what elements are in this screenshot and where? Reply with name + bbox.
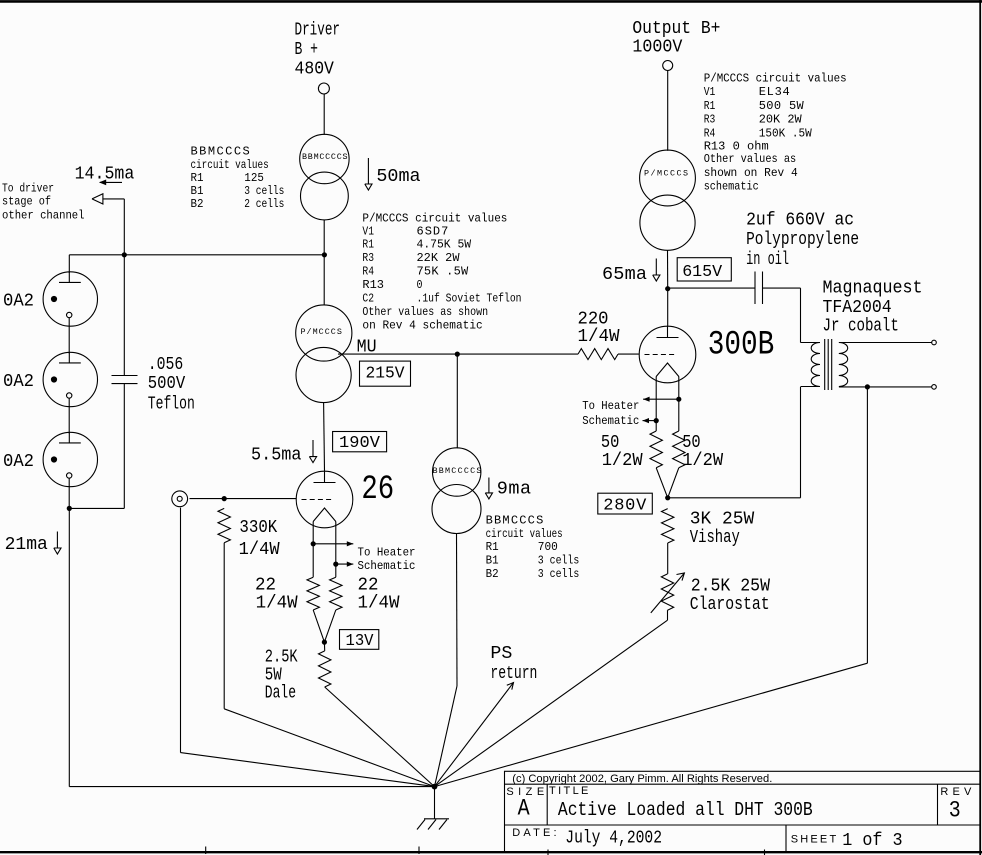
terminal Output B+ (663, 61, 673, 71)
svg-text:R1: R1 (704, 99, 716, 113)
terminal output top (932, 340, 937, 345)
svg-text:Dale: Dale (265, 683, 296, 704)
svg-text:A: A (518, 795, 530, 821)
wire (667, 543, 669, 574)
svg-text:215V: 215V (366, 365, 406, 384)
svg-text:B2: B2 (191, 197, 204, 211)
wire vee join 300B (656, 468, 679, 498)
label To Heater Schematic (300B) (582, 399, 639, 428)
svg-text:1 of 3: 1 of 3 (842, 830, 902, 851)
svg-text:700: 700 (538, 540, 558, 554)
wire filament right 26 (335, 522, 337, 578)
label 0A2 (middle) (3, 371, 34, 392)
wire bus (69, 254, 324, 256)
svg-text:190V: 190V (339, 434, 381, 453)
label SHEET (791, 834, 837, 846)
label 3K 25W Vishay (690, 509, 755, 548)
svg-text:B +: B + (295, 39, 319, 60)
wire (618, 353, 639, 355)
node junction cathode vee (322, 640, 327, 645)
terminal input jack (172, 491, 188, 507)
wire (323, 642, 325, 651)
capacitor 2uf 660V (755, 272, 763, 305)
wire primary bottom (668, 387, 820, 498)
label SIZE (506, 786, 544, 798)
label 2uf 660V ac Polypropylene in oil (746, 210, 859, 270)
svg-text:R13: R13 (362, 278, 384, 292)
label To Heater Schematic (26) (358, 546, 416, 573)
resistor 220 1/4W (578, 349, 618, 360)
wire (667, 289, 669, 327)
arrow open to other channel (92, 194, 124, 204)
label 0A2 (bottom) (3, 451, 34, 472)
terminal Driver B+ (318, 83, 329, 94)
node junction MU (455, 352, 460, 357)
node Output B+ label (632, 18, 720, 58)
svg-text:C2: C2 (362, 292, 374, 306)
label 2.5K 25W Clarostat (690, 575, 771, 615)
label 21ma arrow (5, 532, 61, 556)
wire secondary top (839, 342, 932, 344)
svg-text:To Heater: To Heater (358, 546, 416, 560)
svg-text:75K .5W: 75K .5W (417, 265, 469, 279)
svg-text:65ma: 65ma (602, 264, 647, 285)
wire (323, 403, 326, 472)
svg-text:R1: R1 (486, 540, 499, 554)
svg-text:B1: B1 (486, 554, 499, 568)
current source CCS3 BBMCCCCS (432, 448, 481, 534)
svg-text:125: 125 (244, 171, 264, 185)
svg-text:26: 26 (361, 471, 394, 509)
node junction 280V (665, 495, 670, 500)
svg-text:R1: R1 (362, 237, 374, 251)
wire (435, 387, 868, 787)
wire (323, 94, 325, 135)
label P/MCCCS circuit values (output) (704, 72, 847, 194)
current source CCS4 P/MCCCS output (640, 150, 696, 250)
label 330K 1/4W (239, 517, 281, 560)
wire jack down (181, 508, 435, 787)
svg-text:schematic: schematic (704, 180, 759, 194)
svg-text:2 cells: 2 cells (244, 197, 284, 211)
label TITLE (549, 785, 588, 797)
svg-text:0A2: 0A2 (3, 371, 34, 392)
label 50ma arrow (365, 158, 421, 190)
svg-text:P/MCCCS circuit values: P/MCCCS circuit values (704, 72, 847, 86)
svg-text:in oil: in oil (746, 249, 789, 270)
label 300B (708, 326, 775, 364)
svg-text:circuit values: circuit values (486, 527, 563, 541)
svg-text:SHEET: SHEET (791, 834, 837, 846)
svg-text:Polypropylene: Polypropylene (746, 229, 859, 250)
ground chassis symbol (417, 819, 449, 830)
svg-text:Active Loaded all DHT 300B: Active Loaded all DHT 300B (558, 799, 813, 821)
svg-text:Clarostat: Clarostat (690, 594, 770, 615)
node junction bus (322, 252, 327, 257)
svg-text:EL34: EL34 (759, 85, 790, 99)
border frame bottom (0, 851, 982, 853)
wire (323, 220, 325, 255)
wire filament left 300B (655, 376, 657, 431)
label Magnaquest TFA2004 Jr cobalt (823, 278, 923, 337)
label size A (518, 795, 530, 821)
svg-text:P/MCCCS: P/MCCCS (644, 168, 688, 178)
svg-text:3: 3 (949, 797, 961, 823)
terminal output bottom (932, 385, 937, 390)
tube V3 300B (639, 326, 696, 383)
svg-text:V1: V1 (704, 85, 716, 99)
label 65ma arrow (602, 259, 660, 285)
label 2.5K 5W Dale (265, 647, 298, 704)
arrow to heater (26) (313, 541, 353, 546)
label rev 3 (949, 797, 961, 823)
svg-text:P/MCCCS: P/MCCCS (301, 327, 342, 337)
label 280V boxed (598, 493, 653, 515)
tube V2 26 (296, 471, 353, 528)
svg-text:2uf 660V ac: 2uf 660V ac (746, 210, 854, 231)
svg-text:4.75K 5W: 4.75K 5W (417, 237, 472, 251)
resistor 330K 1/4W (218, 508, 230, 542)
arrow to heater (300B) (643, 397, 679, 402)
svg-text:0A2: 0A2 (3, 451, 34, 472)
svg-text:280V: 280V (603, 497, 647, 516)
node junction filament right 300B (676, 397, 681, 402)
label 215V boxed (360, 361, 411, 386)
resistor 22 1/4W left (307, 577, 319, 610)
svg-text:Magnaquest: Magnaquest (823, 278, 923, 299)
svg-text:Vishay: Vishay (690, 527, 740, 548)
svg-text:5.5ma: 5.5ma (251, 444, 302, 465)
label 5.5ma arrow (251, 440, 317, 465)
node junction filament left 300B (654, 418, 659, 423)
label PS return (490, 643, 537, 684)
tube V6 0A2 bottom (43, 432, 97, 486)
resistor 2.5K 5W Dale (319, 651, 331, 687)
arrow to heater 2 (300B) (643, 418, 657, 423)
svg-text:0: 0 (417, 278, 423, 292)
wire grid 26 (190, 498, 297, 500)
label date text (565, 827, 662, 848)
node junction filament right (333, 562, 338, 567)
svg-text:BBMCCCCS: BBMCCCCS (433, 466, 482, 476)
svg-text:BBMCCCS: BBMCCCS (191, 145, 250, 159)
svg-text:return: return (490, 663, 537, 684)
capacitor .056 500V Teflon (112, 376, 138, 384)
label sheet text (842, 830, 902, 851)
label to driver stage of other channel (2, 182, 85, 223)
label 50 1/2W left (601, 432, 644, 471)
border frame right (979, 0, 981, 855)
svg-text:3 cells: 3 cells (538, 567, 580, 581)
svg-text:other channel: other channel (2, 208, 85, 222)
label title text (558, 799, 813, 821)
label .056 500V Teflon (148, 354, 195, 415)
svg-text:1/2W: 1/2W (602, 450, 644, 471)
svg-text:.056: .056 (148, 354, 184, 375)
svg-text:Other values as: Other values as (704, 152, 797, 166)
wire MU output (338, 353, 578, 355)
svg-text:REV: REV (940, 786, 972, 798)
wire (325, 687, 435, 787)
label MU (357, 336, 377, 357)
label BBMCCCS circuit values (driver) (191, 145, 285, 211)
border tick marks (206, 847, 765, 855)
svg-text:PS: PS (490, 643, 512, 664)
wire (435, 534, 458, 787)
border frame top (0, 0, 982, 3)
svg-text:TITLE: TITLE (549, 785, 588, 797)
node junction 0A2 bottom (67, 506, 72, 511)
svg-text:DATE:: DATE: (512, 827, 556, 839)
svg-text:1/4W: 1/4W (239, 539, 281, 560)
wire vee join (313, 610, 336, 642)
svg-text:.1uf Soviet Teflon: .1uf Soviet Teflon (417, 292, 522, 306)
svg-text:R4: R4 (362, 265, 374, 279)
svg-text:R3: R3 (704, 113, 716, 127)
node junction ground star (432, 784, 438, 790)
svg-text:0A2: 0A2 (3, 290, 34, 311)
tube V5 0A2 middle (43, 352, 97, 406)
label 9ma arrow (485, 478, 531, 500)
svg-text:BBMCCCCS: BBMCCCCS (302, 152, 348, 162)
svg-text:July 4,2002: July 4,2002 (565, 827, 662, 848)
current source CCS1 BBMCCCCS (300, 134, 349, 220)
resistor 22 1/4W right (330, 577, 342, 610)
label 22 1/4W right (358, 574, 401, 613)
wire PS return arrow (435, 683, 514, 787)
wire (68, 255, 70, 273)
wire filament right 300B (678, 376, 680, 431)
resistor 50 1/2W right (673, 431, 685, 468)
label copyright (512, 773, 772, 785)
svg-text:500 5W: 500 5W (759, 99, 805, 113)
svg-text:300B: 300B (708, 326, 775, 364)
svg-text:1000V: 1000V (632, 36, 682, 57)
wire (69, 384, 124, 509)
wire (224, 543, 434, 787)
svg-text:R1: R1 (191, 171, 204, 185)
svg-text:To driver: To driver (2, 182, 54, 196)
label 50 1/2W right (682, 432, 724, 471)
svg-text:22K 2W: 22K 2W (417, 251, 461, 265)
resistor 3K 25W Vishay (662, 509, 674, 543)
wire (456, 354, 458, 448)
wire (68, 318, 70, 354)
label 190V boxed (333, 432, 387, 454)
label 26 (361, 471, 394, 509)
svg-text:Other values as shown: Other values as shown (362, 305, 488, 319)
transformer Magnequest TFA2004 (811, 339, 848, 390)
svg-text:3 cells: 3 cells (538, 554, 580, 568)
resistor 2.5K 25W Clarostat variable (651, 573, 685, 613)
svg-text:13V: 13V (346, 632, 375, 651)
label P/MCCCS circuit values (driver) (362, 212, 521, 333)
svg-text:V1: V1 (362, 224, 374, 238)
wire (667, 250, 669, 288)
svg-text:Driver: Driver (295, 19, 341, 40)
node junction cap tap (122, 252, 127, 257)
wire (668, 287, 755, 289)
wire (123, 199, 125, 255)
svg-text:Jr cobalt: Jr cobalt (823, 315, 899, 336)
svg-text:stage of: stage of (2, 195, 51, 209)
svg-text:330K: 330K (239, 517, 278, 538)
label BBMCCCS circuit values (cathode) (486, 514, 580, 581)
label 0A2 (top) (3, 290, 34, 311)
current source CCS2 P/MCCCS MU (296, 255, 352, 403)
svg-text:1/2W: 1/2W (682, 450, 724, 471)
label 220 1/4W (578, 308, 621, 347)
node junction filament left (311, 541, 316, 546)
node junction plate (665, 286, 670, 291)
svg-text:500V: 500V (148, 373, 185, 394)
arrow 14.5ma (99, 180, 122, 186)
label 22 1/4W left (255, 574, 298, 613)
wire (68, 398, 70, 433)
tube V4 0A2 top (43, 272, 97, 326)
node junction grid (222, 496, 227, 501)
svg-text:(c) Copyright 2002, Gary Pimm.: (c) Copyright 2002, Gary Pimm. All Right… (512, 773, 772, 785)
label 13V boxed (340, 630, 379, 652)
title block frame (505, 771, 981, 852)
svg-text:20K 2W: 20K 2W (759, 113, 803, 127)
label 615V boxed (677, 258, 731, 282)
svg-text:R3: R3 (362, 251, 374, 265)
svg-text:1/4W: 1/4W (358, 593, 401, 614)
label REV (940, 786, 972, 798)
label DATE (512, 827, 556, 839)
svg-text:To Heater: To Heater (582, 399, 639, 413)
svg-text:on Rev 4 schematic: on Rev 4 schematic (362, 319, 482, 333)
svg-text:1/4W: 1/4W (578, 326, 621, 347)
wire (667, 71, 669, 151)
node junction secondary (865, 384, 870, 389)
svg-text:B2: B2 (486, 567, 499, 581)
svg-text:BBMCCCS: BBMCCCS (486, 514, 544, 528)
svg-text:50ma: 50ma (376, 166, 420, 187)
arrow to heater 2 (26) (336, 562, 354, 567)
svg-text:1/4W: 1/4W (256, 593, 299, 614)
wire (69, 508, 434, 786)
label 14.5ma (75, 163, 135, 184)
svg-text:21ma: 21ma (5, 534, 48, 555)
node Driver B+ label (295, 19, 341, 79)
svg-text:480V: 480V (295, 58, 334, 79)
wire (123, 255, 125, 376)
wire secondary bottom (839, 386, 932, 388)
svg-text:6SD7: 6SD7 (417, 224, 449, 238)
svg-text:Teflon: Teflon (148, 394, 195, 415)
svg-text:615V: 615V (682, 263, 723, 282)
wire (435, 610, 668, 786)
wire (68, 478, 70, 508)
svg-text:shown on Rev 4: shown on Rev 4 (704, 166, 798, 180)
svg-text:Schematic: Schematic (582, 414, 639, 428)
wire (434, 787, 436, 819)
svg-text:Schematic: Schematic (358, 559, 416, 573)
wire filament left 26 (312, 522, 314, 578)
wire (763, 288, 821, 342)
resistor 50 1/2W left (650, 431, 662, 468)
svg-text:9ma: 9ma (497, 479, 531, 500)
